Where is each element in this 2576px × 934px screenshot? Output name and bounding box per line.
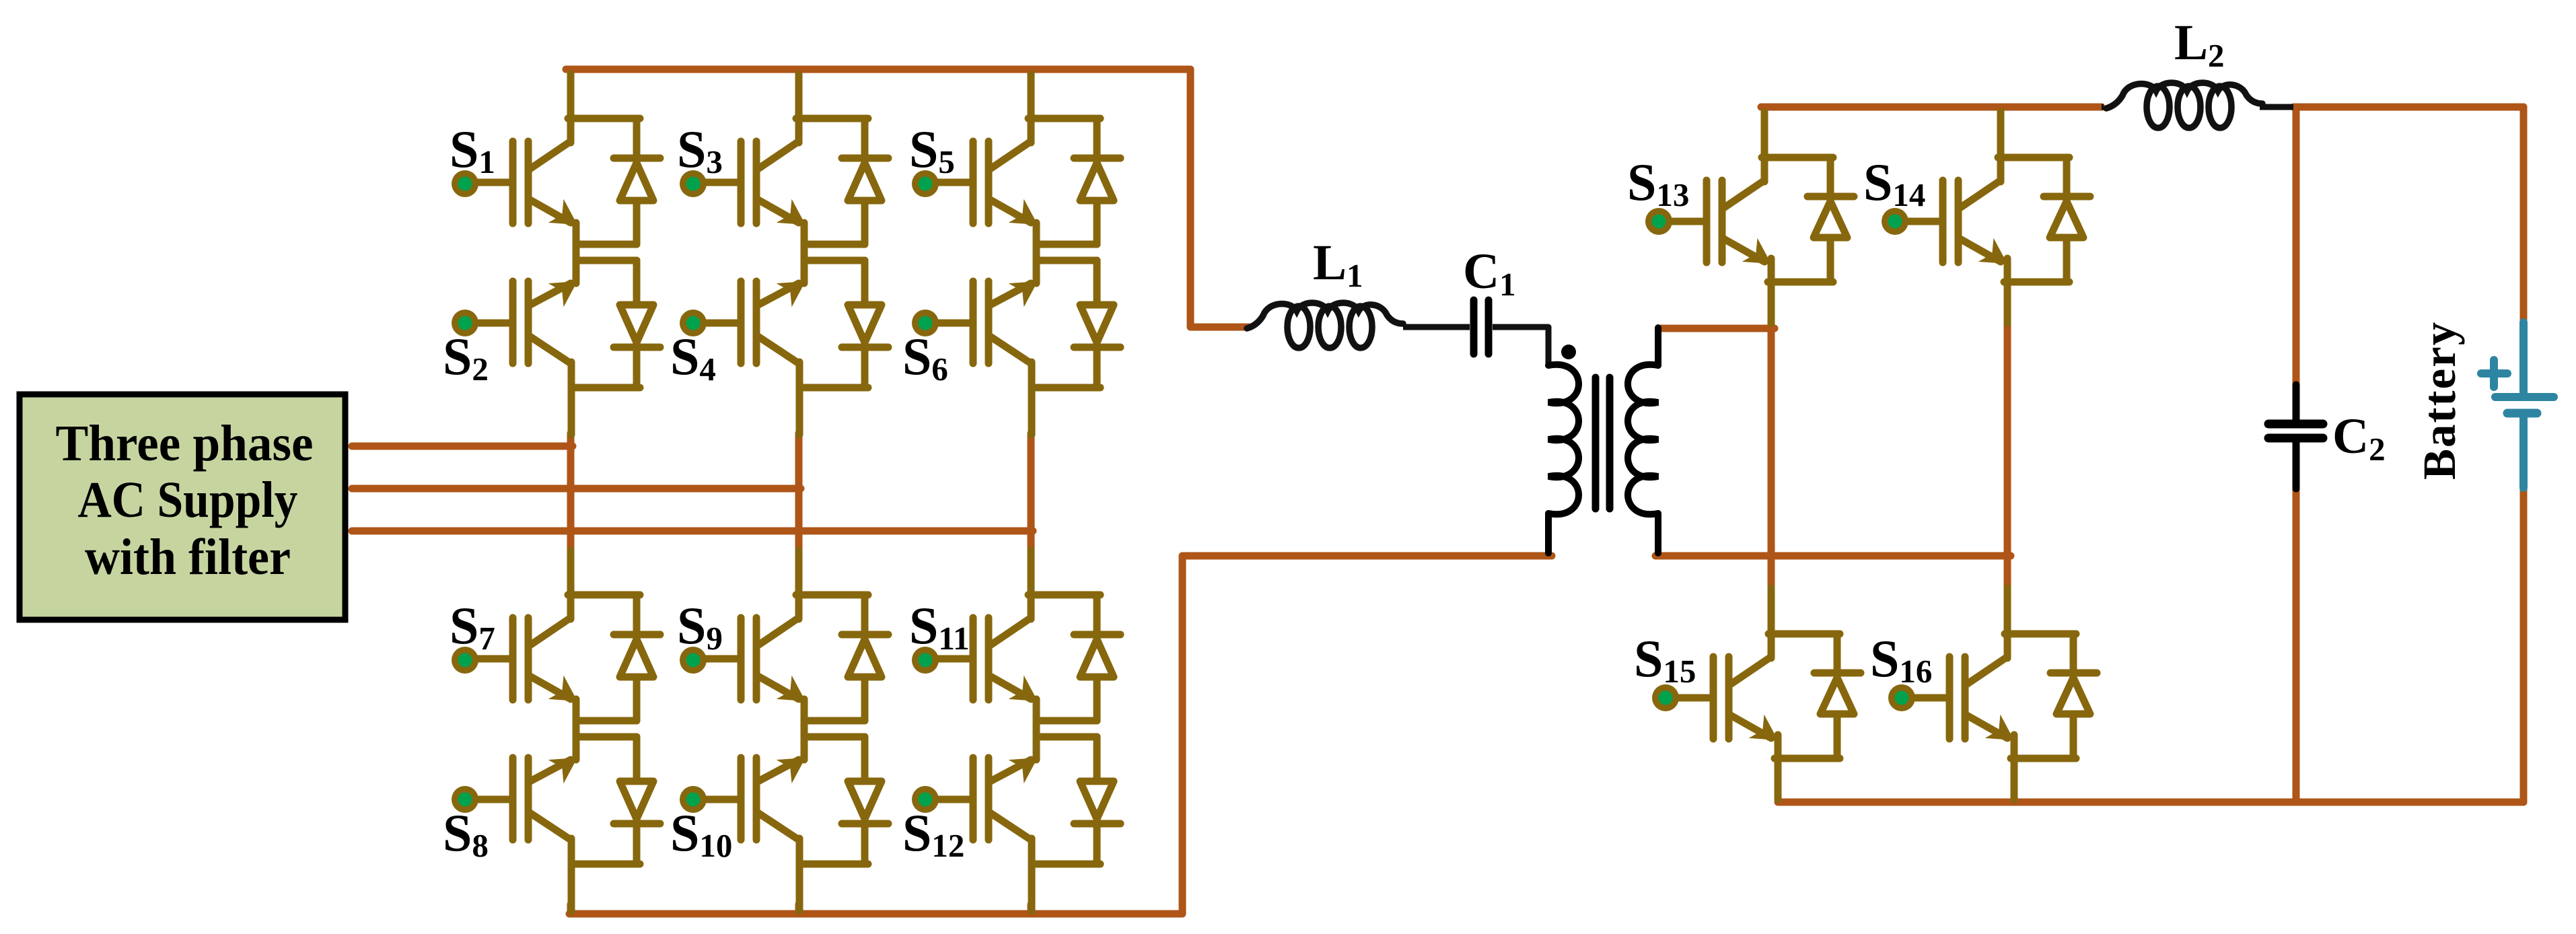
svg-text:S4: S4 [670, 327, 716, 388]
gate dot S2 [452, 310, 478, 336]
svg-text:S13: S13 [1627, 153, 1689, 213]
svg-text:with filter: with filter [85, 529, 291, 585]
wire: H-bridge right leg [2004, 318, 2011, 587]
transformer primary bottom lead [1545, 513, 1552, 553]
svg-text:S6: S6 [902, 327, 948, 388]
gate dot S4 [680, 310, 707, 336]
gate dot S5 [912, 170, 939, 197]
svg-text:S14: S14 [1863, 153, 1925, 213]
switch cell S9/S10 [705, 550, 888, 911]
transformer polarity dot [1561, 345, 1576, 359]
svg-text:S5: S5 [909, 120, 955, 180]
battery positive plate [2495, 393, 2554, 401]
transformer primary winding [1548, 365, 1579, 514]
wire: phase B [352, 485, 801, 493]
wire: matrix top rail [566, 69, 1249, 327]
wire: phase C [352, 528, 1033, 535]
gate dot S3 [680, 170, 707, 197]
gate dot S16 [1888, 684, 1915, 711]
capacitor C2 [2268, 385, 2323, 489]
switch S15 [1678, 588, 1861, 799]
svg-text:S1: S1 [450, 120, 495, 180]
wire: column 1 inter-row link [567, 433, 575, 551]
svg-text:S9: S9 [677, 596, 723, 657]
switch cell S1/S2 [477, 74, 660, 435]
battery bottom lead [2519, 417, 2528, 488]
battery top lead [2519, 322, 2528, 393]
svg-text:S8: S8 [443, 803, 489, 864]
svg-text:S10: S10 [670, 803, 732, 864]
switch S16 [1914, 588, 2097, 799]
gate dot S8 [452, 786, 478, 813]
switch cell S11/S12 [937, 550, 1120, 911]
svg-text:S16: S16 [1870, 629, 1932, 690]
three phase AC supply box [20, 394, 345, 620]
gate dot S13 [1645, 208, 1672, 235]
svg-text:S3: S3 [677, 120, 723, 180]
switch cell S3/S4 [705, 74, 888, 435]
wire: column 3 bottom stub [1028, 904, 1035, 914]
svg-text:C1: C1 [1463, 244, 1516, 303]
switch S14 [1907, 112, 2090, 323]
gate dot S11 [912, 647, 939, 674]
wire: transformer secondary top tap [1661, 325, 1775, 332]
transformer core [1596, 378, 1610, 509]
wire: L2 to battery top [2293, 104, 2524, 111]
wire: C2 bottom leg [2293, 489, 2300, 802]
wire: column 2 inter-row link [795, 433, 803, 551]
svg-text:C2: C2 [2332, 408, 2386, 468]
gate dot S9 [680, 647, 707, 674]
svg-text:S15: S15 [1634, 629, 1696, 690]
svg-text:S7: S7 [450, 596, 495, 657]
transformer secondary bottom lead [1655, 513, 1661, 553]
gate dot S12 [912, 786, 939, 813]
svg-text:S12: S12 [902, 803, 964, 864]
wire: H-bridge top rail [1761, 104, 2102, 111]
wire: column 2 bottom stub [795, 904, 803, 914]
svg-text:S2: S2 [443, 327, 489, 388]
inductor L1 [1247, 303, 1403, 348]
switch cell S7/S8 [477, 550, 660, 911]
capacitor C1 [1474, 300, 1489, 354]
gate dot S6 [912, 310, 939, 336]
wire: column 3 inter-row link [1028, 433, 1035, 551]
svg-text:S11: S11 [909, 596, 970, 657]
svg-text:AC Supply: AC Supply [78, 472, 298, 528]
wire C1 to transformer [1493, 327, 1548, 365]
wire: column 1 bottom stub [567, 904, 575, 914]
svg-text:Battery: Battery [2414, 321, 2465, 480]
svg-text:L2: L2 [2174, 15, 2225, 74]
switch S13 [1671, 112, 1854, 323]
svg-text:L1: L1 [1313, 235, 1363, 294]
wire: H-bridge left leg [1768, 318, 1775, 587]
battery plus sign [2481, 369, 2507, 378]
wire: transformer secondary bottom tap [1655, 552, 2011, 560]
wire: matrix bottom rail to transformer primary bottom [569, 556, 1552, 914]
transformer secondary top lead [1655, 328, 1661, 365]
gate dot S7 [452, 647, 478, 674]
gate dot S14 [1882, 208, 1908, 235]
wire: C2 top leg [2293, 107, 2300, 385]
wire: output bottom rail [1778, 799, 2524, 806]
gate dot S10 [680, 786, 707, 813]
wire: battery bottom leg [2520, 488, 2528, 802]
svg-text:Three phase: Three phase [56, 415, 314, 472]
gate dot S1 [452, 170, 478, 197]
battery negative plate [2507, 409, 2537, 418]
inductor L2 [2102, 104, 2104, 110]
transformer secondary winding [1628, 365, 1658, 514]
wire: phase A [352, 443, 573, 450]
gate dot S15 [1652, 684, 1679, 711]
switch cell S5/S6 [937, 74, 1120, 435]
wire: battery top leg [2520, 107, 2528, 322]
